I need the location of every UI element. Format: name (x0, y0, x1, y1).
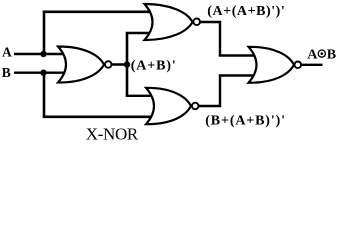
junction dot on B (40, 70, 46, 76)
nor-gate U4 (final) (249, 47, 295, 83)
wire: U3 output right (198, 105, 221, 107)
wire: B branch vertical down (43, 73, 46, 117)
svg-text:B: B (2, 65, 11, 80)
bubble U3 (192, 103, 199, 110)
nor-gate U3 (B, (A+B)') (146, 88, 191, 124)
bubble U4 (295, 62, 302, 69)
wire: U2 output into U4 upper input (219, 54, 262, 56)
wire: U2 output down (219, 22, 221, 56)
nor-gate U1 (inputs A,B) (58, 46, 104, 82)
svg-text:A: A (2, 45, 12, 60)
wire: U2 output right (200, 21, 221, 23)
bubble U2 (193, 19, 200, 26)
bubble U1 (105, 61, 112, 68)
wire: input A horizontal (14, 53, 70, 55)
nor-gate U2 (A, (A+B)') (145, 4, 193, 40)
svg-text:B: B (327, 47, 336, 62)
junction dot node (A+B)' (124, 61, 130, 67)
wire: node to U3 upper input (126, 95, 160, 97)
wire: A branch top horizontal to gate U2 (43, 11, 158, 14)
svg-text:A: A (307, 47, 318, 62)
wire: final output (301, 64, 323, 66)
wire: U1 output to node (A+B)' (111, 63, 128, 65)
wire: node to U2 lower input (126, 32, 158, 34)
wire: U3 output into U4 lower input (219, 74, 262, 76)
junction dot on A (40, 51, 46, 57)
svg-text:(A+B)': (A+B)' (131, 58, 177, 73)
wire: U3 output up (219, 76, 221, 107)
wire: node (A+B)' vertical distribution (126, 33, 129, 96)
wire: B branch bottom horizontal to gate U3 (43, 116, 160, 119)
wire: input B horizontal (14, 71, 70, 73)
wire: A branch vertical up (43, 12, 46, 54)
svg-text:X-NOR: X-NOR (86, 125, 139, 144)
svg-text:(B+(A+B)')': (B+(A+B)')' (205, 113, 286, 128)
svg-text:(A+(A+B)')': (A+(A+B)')' (207, 4, 285, 19)
